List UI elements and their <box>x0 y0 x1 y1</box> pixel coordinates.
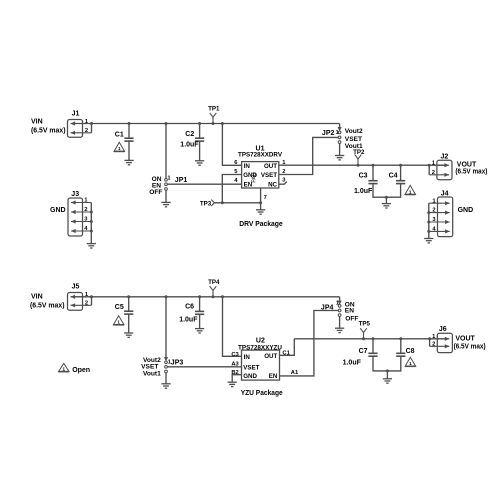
svg-text:PAD: PAD <box>252 172 258 183</box>
wire U1 pad pin7 <box>260 188 262 210</box>
wire JP1 pin3 to ground <box>165 190 167 202</box>
svg-text:YZU Package: YZU Package <box>241 390 283 397</box>
wire EN net bottom <box>280 311 339 376</box>
svg-text:IN: IN <box>244 354 251 361</box>
wire C4 stem top <box>400 165 402 181</box>
svg-text:C3: C3 <box>359 173 368 180</box>
svg-text:1: 1 <box>117 320 120 325</box>
junction TP2 rail <box>357 164 360 167</box>
wire C8 stem top <box>400 339 402 354</box>
ground C6 ground <box>195 329 204 333</box>
junction C2 rail <box>198 122 201 125</box>
connector J4 <box>429 190 453 236</box>
svg-text:VIN: VIN <box>31 119 43 126</box>
svg-text:TPS728XXYZU: TPS728XXYZU <box>238 344 282 351</box>
test point TP4 <box>210 286 217 297</box>
wire C1 stem bottom <box>128 141 130 160</box>
wire rail to JP4 pin1 <box>339 297 341 301</box>
svg-text:C5: C5 <box>115 304 124 311</box>
wire JP4 pin3 to ground <box>339 316 341 328</box>
svg-text:2: 2 <box>432 341 435 347</box>
wire J1 pin2 to rail <box>91 124 93 133</box>
wire C5 stem bottom <box>128 314 130 333</box>
wire J4 tie <box>428 203 430 238</box>
svg-text:TP2: TP2 <box>353 149 365 156</box>
IC U1 TPS728XXDRV <box>238 145 283 188</box>
svg-text:(6.5V max): (6.5V max) <box>31 128 66 135</box>
junction J5 pins <box>90 295 93 298</box>
ground U1 pad ground <box>256 210 265 214</box>
wire VSET net top <box>279 137 338 174</box>
capacitor C1 plates <box>124 138 133 141</box>
note triangle note1 near C5 <box>113 316 124 325</box>
svg-text:VSET: VSET <box>243 364 259 371</box>
wire U2 GND pin <box>232 375 241 382</box>
wire EN net <box>167 183 241 185</box>
svg-text:J2: J2 <box>441 153 449 160</box>
jumper JP1 <box>165 178 168 190</box>
wire C6 stem top <box>199 297 201 312</box>
note triangle note1 near C8 <box>405 357 416 366</box>
svg-text:OUT: OUT <box>264 163 277 170</box>
svg-text:JP4: JP4 <box>321 304 334 311</box>
wire VIN rail <box>71 123 340 125</box>
junction J3 p4 <box>90 230 93 233</box>
test point TP2 <box>355 155 362 166</box>
wire C5 stem top <box>128 297 130 311</box>
wire C3 bottom <box>373 184 386 198</box>
svg-text:EN: EN <box>345 308 354 315</box>
capacitor C3 plates <box>368 181 377 184</box>
svg-text:(6.5V max): (6.5V max) <box>454 344 486 351</box>
junction J3 p3 <box>90 220 93 223</box>
svg-text:OUT: OUT <box>264 353 277 360</box>
wire rail to JP3 <box>165 297 167 358</box>
svg-text:2: 2 <box>84 207 87 213</box>
svg-text:1.0uF: 1.0uF <box>180 142 199 149</box>
svg-text:Open: Open <box>72 367 90 374</box>
svg-text:A3: A3 <box>231 361 239 367</box>
svg-text:VSET: VSET <box>261 172 277 179</box>
junction J4 p4 <box>427 230 430 233</box>
wire U1 GND pin <box>222 175 241 203</box>
test point TP3 <box>211 200 214 206</box>
note triangle note1 open <box>59 363 70 371</box>
connector J5 <box>68 284 92 311</box>
wire JP3 pin3 to ground <box>165 373 167 384</box>
junction J4 p2 <box>427 211 430 214</box>
svg-text:J3: J3 <box>71 191 79 198</box>
connector J2 <box>429 153 452 179</box>
wire C8 bottom <box>387 356 400 371</box>
wire VIN rail bottom <box>71 296 340 298</box>
svg-text:VOUT: VOUT <box>457 161 477 168</box>
svg-text:2: 2 <box>85 301 88 307</box>
wire rail to JP1 <box>165 124 167 179</box>
junction C4 rail <box>399 164 402 167</box>
svg-text:VIN: VIN <box>31 293 43 300</box>
wire C6 stem bottom <box>199 314 201 328</box>
junction U1 IN branch <box>221 122 224 125</box>
ground C1 ground <box>124 160 133 164</box>
junction gnd TP3 junction <box>221 201 224 204</box>
junction pad TP3 junction <box>259 201 262 204</box>
svg-text:EN: EN <box>269 373 278 380</box>
svg-text:OFF: OFF <box>149 189 162 196</box>
svg-text:GND: GND <box>50 207 66 214</box>
svg-text:2: 2 <box>432 170 435 176</box>
ground C2 ground <box>195 161 204 165</box>
svg-text:OFF: OFF <box>345 316 358 323</box>
svg-text:1: 1 <box>336 130 339 136</box>
svg-text:TPS728XXDRV: TPS728XXDRV <box>238 152 283 159</box>
svg-text:C4: C4 <box>389 173 398 180</box>
junction C3 C4 ground join <box>385 196 388 199</box>
junction TP5 rail <box>362 337 365 340</box>
ground C5 ground <box>124 333 133 337</box>
capacitor C5 plates <box>124 311 133 314</box>
wire C1 stem top <box>128 124 130 139</box>
svg-text:JP2: JP2 <box>322 130 335 137</box>
svg-text:TP5: TP5 <box>359 320 371 327</box>
junction C1 rail <box>128 122 131 125</box>
wire rail to U2 IN <box>223 297 242 357</box>
junction C5 rail <box>127 295 130 298</box>
junction J1 pins <box>90 122 93 125</box>
svg-text:TP4: TP4 <box>208 279 220 286</box>
capacitor C7 plates <box>368 353 377 356</box>
wire TP3 net <box>215 202 261 204</box>
svg-text:2: 2 <box>432 208 435 214</box>
wire J6 pin2 riser <box>429 339 431 347</box>
jumper JP4 <box>338 301 342 317</box>
connector J3 <box>68 191 91 236</box>
wire C3C4 to ground <box>385 197 387 203</box>
ground J3 ground <box>87 244 96 248</box>
wire J3 tie <box>90 203 92 244</box>
svg-text:1: 1 <box>409 361 412 366</box>
svg-text:1: 1 <box>336 301 339 307</box>
svg-text:DRV Package: DRV Package <box>239 221 283 228</box>
wire rail to U1 IN <box>222 124 241 166</box>
svg-text:J4: J4 <box>441 190 449 197</box>
junction J3 p2 <box>90 211 93 214</box>
capacitor C2 plates <box>195 138 204 141</box>
junction C7 rail <box>372 337 375 340</box>
svg-text:TP3: TP3 <box>200 201 212 208</box>
wire C7 bottom <box>373 356 387 371</box>
svg-text:Vout1: Vout1 <box>143 370 161 377</box>
wire C7 stem top <box>372 339 374 354</box>
ground JP2 ground <box>335 156 344 160</box>
ground C7 C8 ground <box>383 379 392 383</box>
svg-text:(6.5V max): (6.5V max) <box>455 169 487 176</box>
svg-text:JP3: JP3 <box>171 359 184 366</box>
wire VOUT rail bottom <box>294 338 445 340</box>
wire C3 stem top <box>372 165 374 181</box>
svg-text:C6: C6 <box>185 304 194 311</box>
svg-text:1.0uF: 1.0uF <box>354 188 373 195</box>
junction C3 rail <box>372 164 375 167</box>
svg-text:J1: J1 <box>72 110 80 117</box>
jumper JP3 <box>164 357 168 373</box>
jumper JP2 <box>338 127 342 143</box>
wire C2 stem bottom <box>199 141 201 161</box>
junction U2 IN branch <box>221 295 224 298</box>
wire VSET net bottom <box>167 366 241 368</box>
svg-text:1: 1 <box>168 176 171 182</box>
junction C7 C8 ground join <box>386 369 389 372</box>
ground JP1 ground <box>161 202 170 206</box>
svg-text:1: 1 <box>118 146 121 151</box>
note triangle note1 near C4 <box>405 186 416 195</box>
junction JP1 branch <box>165 122 168 125</box>
wire VOUT rail top <box>279 164 445 166</box>
wire JP2 pin3 to ground <box>339 144 341 156</box>
wire C7C8 to ground <box>386 371 388 379</box>
wire C2 stem top <box>199 124 201 139</box>
wire U1 NC stub <box>279 182 287 185</box>
ground J4 ground <box>424 239 433 243</box>
svg-text:(6.5V max): (6.5V max) <box>30 303 65 310</box>
svg-text:VSET: VSET <box>345 136 362 143</box>
junction J4 p3 <box>427 221 430 224</box>
junction TP4 rail <box>212 295 215 298</box>
ground JP3 ground <box>161 384 170 388</box>
note triangle note1 near C1 <box>114 142 125 151</box>
junction J6 riser <box>428 337 431 340</box>
wire J5 pin2 to rail <box>91 297 93 306</box>
junction C8 rail <box>399 337 402 340</box>
junction TP1 rail <box>212 122 215 125</box>
IC U2 TPS728XXYZU <box>238 338 282 381</box>
wire C4 bottom <box>386 184 400 198</box>
junction JP3 branch <box>165 295 168 298</box>
svg-text:TP1: TP1 <box>208 105 220 112</box>
svg-text:1.0uF: 1.0uF <box>179 317 198 324</box>
wire U2 OUT riser <box>280 339 295 356</box>
svg-text:IN: IN <box>244 163 251 170</box>
connector J6 <box>430 326 453 352</box>
connector J1 <box>68 110 92 137</box>
wire J2 pin2 riser <box>428 165 430 175</box>
svg-text:VOUT: VOUT <box>455 335 475 342</box>
capacitor C4 plates <box>396 181 405 184</box>
test point TP5 <box>360 328 367 339</box>
svg-text:C7: C7 <box>359 348 368 355</box>
svg-text:JP1: JP1 <box>175 177 188 184</box>
svg-text:C3: C3 <box>231 352 239 358</box>
svg-text:NC: NC <box>268 181 277 188</box>
junction C6 rail <box>198 295 201 298</box>
svg-text:1: 1 <box>63 366 66 371</box>
svg-text:C1: C1 <box>115 131 124 138</box>
svg-text:J6: J6 <box>439 326 447 333</box>
svg-text:C2: C2 <box>185 131 194 138</box>
svg-text:1.0uF: 1.0uF <box>343 360 362 367</box>
ground U2 ground <box>228 382 237 386</box>
svg-text:GND: GND <box>458 207 474 214</box>
ground C3 C4 ground <box>382 204 391 208</box>
svg-text:2: 2 <box>85 128 88 134</box>
svg-text:1: 1 <box>409 189 412 194</box>
wire rail to JP2 pin1 <box>339 124 341 128</box>
svg-text:J5: J5 <box>72 284 80 291</box>
svg-text:C8: C8 <box>406 348 415 355</box>
capacitor C8 plates <box>396 353 405 356</box>
svg-text:7: 7 <box>264 195 267 201</box>
ground JP4 ground <box>335 328 344 332</box>
svg-text:GND: GND <box>243 373 257 380</box>
junction J2 riser <box>428 164 431 167</box>
capacitor C6 plates <box>195 311 204 314</box>
test point TP1 <box>210 113 217 124</box>
svg-text:Vout2: Vout2 <box>345 128 363 135</box>
